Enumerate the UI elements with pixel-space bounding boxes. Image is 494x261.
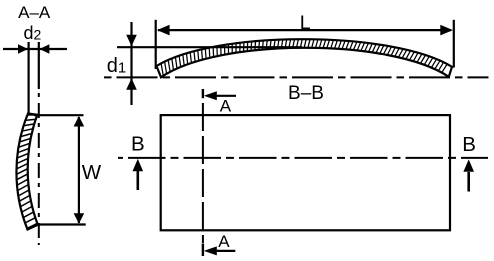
- W bottom extension line: [35, 223, 86, 225]
- svg-text:A: A: [220, 97, 232, 116]
- svg-text:A–A: A–A: [18, 3, 51, 22]
- L extension line left: [155, 20, 157, 69]
- W dimension line: [74, 116, 85, 224]
- svg-text:B: B: [131, 132, 145, 155]
- svg-text:W: W: [82, 161, 102, 184]
- d1 top extension line: [117, 46, 302, 48]
- svg-text:B: B: [462, 133, 476, 156]
- svg-text:d2: d2: [24, 23, 42, 43]
- top view centerline: [104, 76, 489, 78]
- W top extension line: [34, 114, 84, 116]
- view arrow B left: [133, 159, 144, 190]
- L extension line right: [453, 20, 455, 68]
- section arrow A top: [204, 91, 236, 100]
- curved strip (section B-B top view): [157, 39, 453, 77]
- section arrow A bottom: [204, 246, 236, 255]
- plan view horizontal centerline: [118, 157, 488, 159]
- section line A-A (vertical dashed): [202, 103, 204, 243]
- svg-text:d1: d1: [107, 55, 126, 77]
- view arrow B right: [463, 159, 474, 191]
- svg-text:L: L: [300, 12, 311, 34]
- crescent strip (section A-A): [16, 114, 37, 230]
- section tick bottom: [202, 244, 204, 257]
- plate outline rectangle: [161, 115, 450, 230]
- d2 extension line right / centerline top: [38, 42, 40, 89]
- svg-text:B–B: B–B: [288, 83, 324, 104]
- section tick top: [202, 89, 204, 98]
- crescent centerline (section A-A view): [38, 93, 40, 245]
- d1 dimension line: [126, 22, 137, 105]
- dimension d2 line: [3, 44, 67, 54]
- L dimension line: [157, 25, 453, 36]
- d2 extension line left: [28, 42, 30, 114]
- svg-text:A: A: [218, 232, 230, 251]
